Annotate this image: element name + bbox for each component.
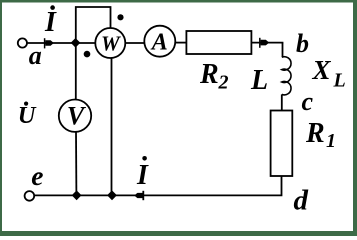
label R2 bbox=[199, 59, 229, 94]
terminal a bbox=[18, 38, 27, 47]
label XL bbox=[312, 55, 346, 92]
node junction top bbox=[71, 38, 81, 48]
wire R2 to corner b bbox=[251, 42, 283, 44]
svg-text:L: L bbox=[333, 70, 346, 92]
wire corner down to coil bbox=[282, 43, 284, 57]
wire junction up-over to wattmeter (current coil loop) bbox=[76, 7, 111, 43]
wire voltmeter to bottom junction bbox=[75, 132, 77, 195]
label I-dot bottom bbox=[136, 156, 149, 191]
resistor R2 bbox=[186, 31, 251, 54]
svg-text:2: 2 bbox=[218, 72, 229, 94]
label U-dot bbox=[18, 102, 37, 130]
resistor R1 bbox=[271, 111, 293, 177]
svg-text:L: L bbox=[250, 65, 268, 96]
svg-text:e: e bbox=[31, 160, 43, 191]
svg-text:A: A bbox=[150, 30, 168, 56]
voltmeter V bbox=[59, 100, 91, 132]
wire a to junction bbox=[27, 42, 75, 44]
polarity dot left bbox=[84, 51, 91, 58]
ammeter A bbox=[144, 26, 175, 57]
wire coil to R1 bbox=[281, 94, 283, 110]
wire R1 to corner d bbox=[29, 176, 281, 195]
svg-text:W: W bbox=[101, 32, 121, 56]
inductor L coil bbox=[282, 57, 291, 95]
svg-text:I: I bbox=[44, 7, 57, 38]
current arrow I bottom (pointing left) bbox=[134, 191, 143, 200]
current arrow I top bbox=[45, 38, 54, 48]
svg-text:R: R bbox=[305, 118, 325, 149]
svg-text:c: c bbox=[302, 87, 314, 116]
node junction bottom right bbox=[107, 190, 117, 200]
svg-text:1: 1 bbox=[326, 130, 336, 152]
wire W to A bbox=[126, 42, 144, 44]
node junction bottom left bbox=[72, 190, 82, 200]
wire junction down to voltmeter bbox=[75, 43, 77, 100]
svg-text:d: d bbox=[294, 185, 309, 217]
label R1 bbox=[305, 118, 336, 152]
current arrow after R2 bbox=[260, 38, 269, 48]
svg-text:X: X bbox=[312, 55, 332, 85]
svg-text:U: U bbox=[18, 102, 37, 129]
svg-text:I: I bbox=[136, 160, 149, 191]
polarity dot top bbox=[117, 14, 123, 20]
wire junction to wattmeter left bbox=[76, 42, 96, 44]
wire W bottom to junction (voltage coil return) bbox=[111, 58, 113, 195]
wattmeter W bbox=[95, 28, 125, 58]
svg-text:a: a bbox=[29, 41, 42, 70]
svg-text:b: b bbox=[296, 29, 309, 58]
svg-text:R: R bbox=[199, 59, 219, 90]
svg-text:V: V bbox=[67, 102, 87, 131]
label I-dot top bbox=[44, 5, 57, 38]
terminal e bbox=[25, 191, 35, 201]
wire A to R2 bbox=[176, 42, 187, 44]
